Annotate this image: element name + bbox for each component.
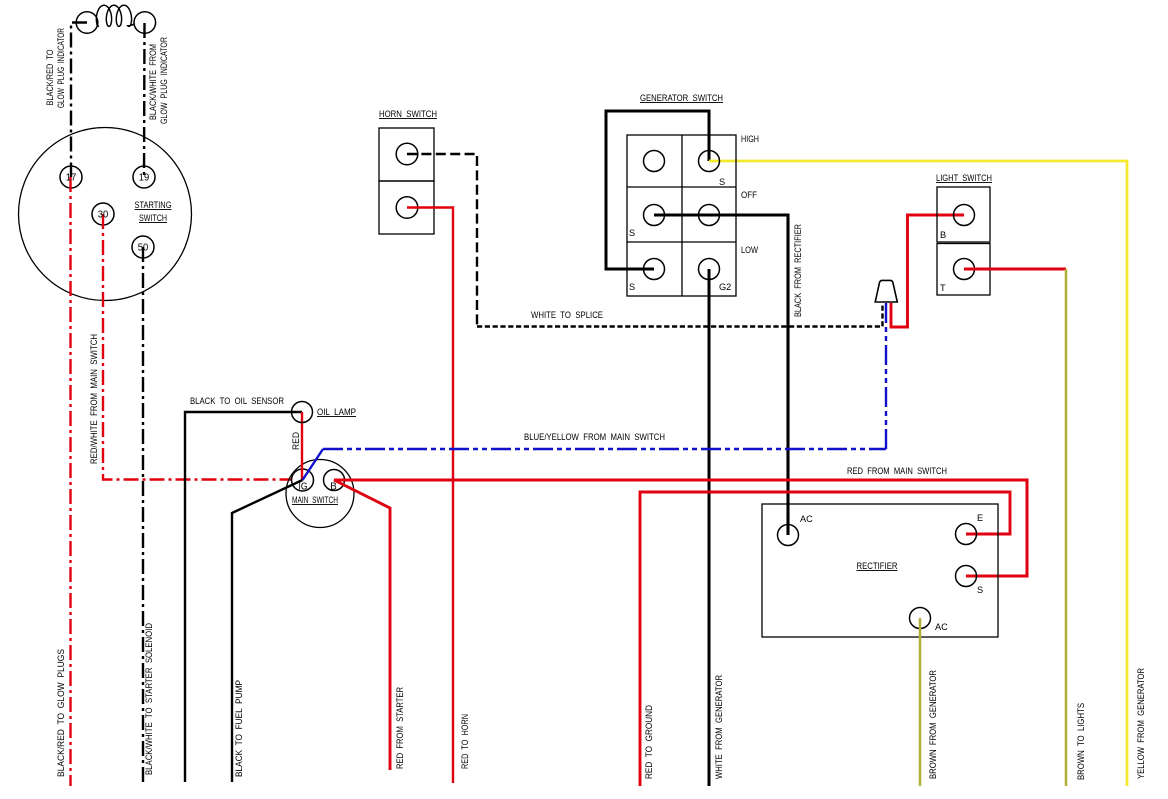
wire brown to lights bbox=[1065, 269, 1068, 786]
starting switch terminal 17 bbox=[60, 166, 82, 188]
rectifier S terminal bbox=[956, 566, 977, 587]
wire black from rectifier to OFF terminal bbox=[654, 215, 788, 535]
svg-text:19: 19 bbox=[139, 173, 150, 184]
wire brown from generator bbox=[919, 618, 922, 786]
starting switch terminal 19 bbox=[133, 166, 155, 188]
generator switch body bbox=[627, 135, 736, 296]
glow plug indicator right terminal bbox=[134, 12, 156, 34]
svg-text:GLOW PLUG INDICATOR: GLOW PLUG INDICATOR bbox=[56, 28, 66, 108]
generator switch terminals bbox=[644, 151, 665, 172]
svg-text:BLACK TO OIL SENSOR: BLACK TO OIL SENSOR bbox=[190, 396, 284, 406]
svg-text:50: 50 bbox=[138, 243, 149, 254]
wire blue/yellow from main switch IG to splice bbox=[303, 449, 324, 480]
svg-text:LIGHT SWITCH: LIGHT SWITCH bbox=[936, 173, 992, 183]
svg-text:HIGH: HIGH bbox=[741, 134, 759, 144]
horn switch body lower bbox=[379, 181, 434, 234]
wire red from main switch B to rectifier S bbox=[334, 480, 1027, 576]
svg-text:RED/WHITE FROM MAIN SWITCH: RED/WHITE FROM MAIN SWITCH bbox=[89, 334, 99, 464]
wire white to splice from horn switch upper terminal bbox=[407, 154, 477, 327]
horn switch lower terminal bbox=[396, 197, 418, 219]
wire red from splice to light switch B bbox=[891, 215, 964, 327]
svg-text:BLACK/RED TO GLOW PLUGS: BLACK/RED TO GLOW PLUGS bbox=[56, 649, 66, 777]
svg-text:S: S bbox=[629, 228, 635, 238]
main switch body bbox=[286, 460, 354, 528]
wire white from generator to G2 terminal bbox=[708, 269, 711, 786]
svg-text:E: E bbox=[977, 513, 983, 523]
wire red/white from terminal 30 to main switch IG bbox=[103, 214, 303, 480]
rectifier AC terminal bottom bbox=[910, 608, 931, 629]
wire black/white from glow plug indicator down to terminal 19 bbox=[143, 23, 146, 177]
svg-text:WHITE FROM GENERATOR: WHITE FROM GENERATOR bbox=[714, 675, 724, 779]
light switch terminal T bbox=[954, 259, 975, 280]
starting switch body bbox=[19, 128, 192, 301]
main switch IG terminal bbox=[292, 469, 314, 491]
light switch body upper bbox=[937, 187, 990, 242]
svg-text:S: S bbox=[629, 282, 635, 292]
glow plug indicator left terminal bbox=[76, 12, 98, 34]
svg-text:RED FROM STARTER: RED FROM STARTER bbox=[395, 687, 405, 769]
starting switch terminal 30 bbox=[92, 203, 114, 225]
svg-text:GENERATOR SWITCH: GENERATOR SWITCH bbox=[640, 93, 723, 103]
svg-text:S: S bbox=[719, 177, 725, 187]
oil lamp bbox=[292, 402, 313, 423]
starting switch terminal 50 bbox=[132, 236, 154, 258]
splice bbox=[875, 280, 897, 302]
wire red to ground / rectifier E bbox=[640, 492, 1010, 786]
svg-text:OIL LAMP: OIL LAMP bbox=[317, 407, 356, 417]
svg-text:GLOW PLUG INDICATOR: GLOW PLUG INDICATOR bbox=[159, 37, 169, 124]
wire red to horn from horn switch lower terminal bbox=[407, 208, 453, 784]
svg-text:RED TO GROUND: RED TO GROUND bbox=[644, 705, 654, 779]
svg-text:BLACK/WHITE FROM: BLACK/WHITE FROM bbox=[148, 44, 158, 120]
wire red from oil lamp to IG bbox=[301, 412, 303, 480]
light switch terminal B bbox=[954, 205, 975, 226]
svg-text:17: 17 bbox=[66, 173, 77, 184]
svg-text:SWITCH: SWITCH bbox=[139, 213, 167, 223]
svg-text:RECTIFIER: RECTIFIER bbox=[857, 561, 898, 571]
horn switch body upper bbox=[379, 128, 434, 181]
svg-text:AC: AC bbox=[935, 622, 948, 632]
wire black/red to glow plugs from terminal 17 bbox=[69, 177, 71, 786]
horn switch upper terminal bbox=[396, 143, 418, 165]
svg-text:BLUE/YELLOW FROM MAIN SWITCH: BLUE/YELLOW FROM MAIN SWITCH bbox=[524, 432, 665, 442]
light switch body lower bbox=[937, 244, 990, 296]
svg-text:HORN SWITCH: HORN SWITCH bbox=[379, 109, 437, 119]
svg-text:BLACK TO FUEL PUMP: BLACK TO FUEL PUMP bbox=[234, 680, 244, 777]
svg-text:OFF: OFF bbox=[741, 190, 757, 200]
main switch B terminal bbox=[324, 470, 345, 491]
wire black/red from terminal 17 up to glow plug indicator bbox=[71, 23, 87, 178]
svg-text:S: S bbox=[977, 585, 983, 595]
wire black to oil sensor bbox=[185, 412, 302, 782]
svg-text:RED: RED bbox=[291, 432, 301, 450]
rectifier AC terminal top left bbox=[778, 525, 799, 546]
svg-text:AC: AC bbox=[800, 514, 813, 524]
svg-text:30: 30 bbox=[98, 210, 109, 221]
wire yellow from generator HIGH terminal bbox=[709, 161, 1127, 786]
svg-text:STARTING: STARTING bbox=[135, 200, 172, 210]
svg-text:WHITE TO SPLICE: WHITE TO SPLICE bbox=[531, 310, 603, 320]
svg-text:BLACK FROM RECTIFIER: BLACK FROM RECTIFIER bbox=[793, 224, 803, 317]
generator switch loop wire HIGH-S to LOW-S bbox=[606, 111, 709, 269]
svg-text:BROWN TO LIGHTS: BROWN TO LIGHTS bbox=[1076, 703, 1086, 780]
svg-text:BLACK/WHITE TO STARTER SOLENOI: BLACK/WHITE TO STARTER SOLENOID bbox=[144, 623, 154, 775]
svg-text:RED TO HORN: RED TO HORN bbox=[460, 714, 470, 769]
svg-text:T: T bbox=[940, 283, 946, 293]
wire black to fuel pump from IG bbox=[232, 480, 303, 782]
wire red from starter to main switch B bbox=[334, 480, 390, 770]
svg-text:BLACK/RED TO: BLACK/RED TO bbox=[45, 50, 55, 106]
svg-text:MAIN SWITCH: MAIN SWITCH bbox=[292, 495, 338, 505]
glow plug indicator coil bbox=[96, 5, 134, 26]
wire black/white to starter solenoid from terminal 50 bbox=[142, 247, 144, 782]
wire red from light switch T bbox=[964, 268, 1066, 271]
svg-text:G2: G2 bbox=[719, 282, 731, 292]
svg-text:LOW: LOW bbox=[741, 245, 758, 255]
svg-text:B: B bbox=[940, 230, 946, 240]
svg-text:IG: IG bbox=[299, 482, 308, 493]
rectifier E terminal bbox=[956, 524, 977, 545]
svg-text:YELLOW FROM GENERATOR: YELLOW FROM GENERATOR bbox=[1136, 668, 1146, 779]
svg-text:B: B bbox=[330, 482, 337, 493]
svg-text:BROWN FROM GENERATOR: BROWN FROM GENERATOR bbox=[928, 670, 938, 779]
rectifier body bbox=[762, 504, 998, 637]
svg-text:RED FROM MAIN SWITCH: RED FROM MAIN SWITCH bbox=[847, 466, 947, 476]
